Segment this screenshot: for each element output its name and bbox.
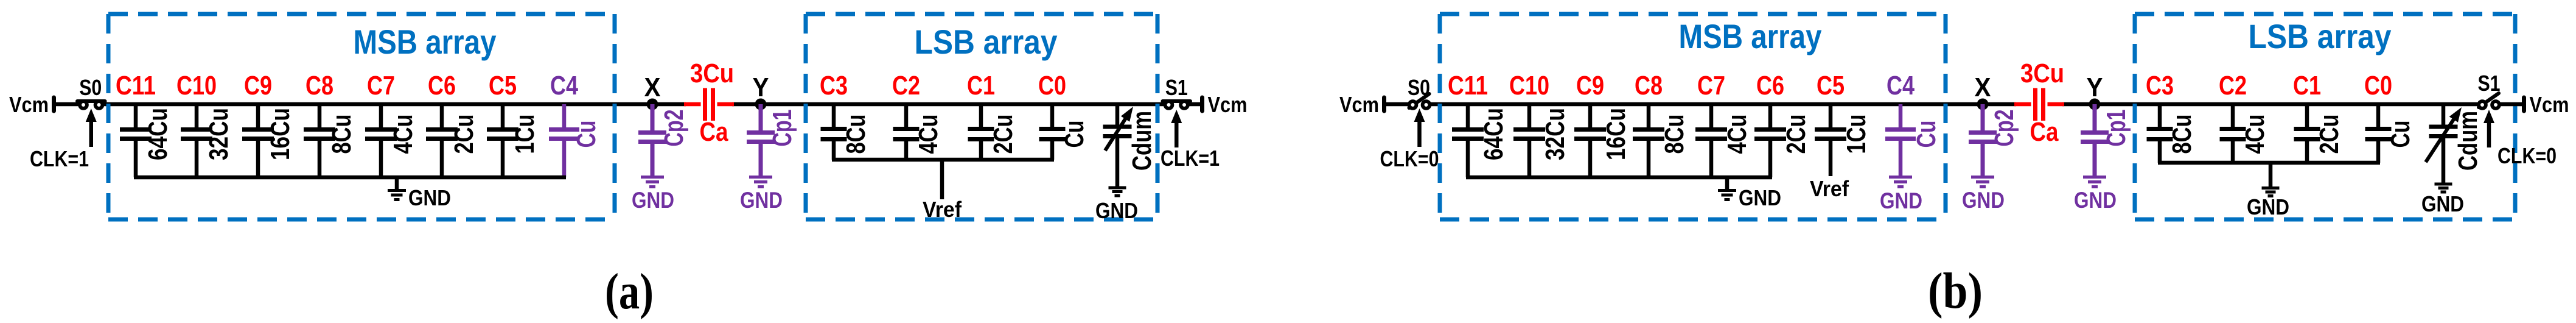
svg-text:Vcm: Vcm bbox=[9, 92, 49, 117]
svg-text:X: X bbox=[644, 73, 661, 102]
svg-text:2Cu: 2Cu bbox=[988, 115, 1018, 154]
capacitor Cdum (b) bbox=[2426, 104, 2483, 183]
MSB array box (a) bbox=[108, 14, 615, 219]
node Vcm right (b) bbox=[2530, 92, 2569, 117]
capacitor C7 (a) bbox=[365, 71, 418, 177]
svg-text:C3: C3 bbox=[820, 71, 848, 101]
svg-text:GND: GND bbox=[408, 185, 451, 210]
svg-text:GND: GND bbox=[2247, 194, 2289, 219]
svg-text:Y: Y bbox=[753, 73, 769, 102]
terminal Vcm right (b) bbox=[2522, 98, 2526, 111]
capacitor C4 (b) bbox=[1885, 71, 1941, 176]
label S0 (b) bbox=[1408, 75, 1430, 100]
wire LSB bottom rail (a) bbox=[832, 158, 1054, 162]
capacitor C1 (b) bbox=[2293, 71, 2344, 163]
svg-text:3Cu: 3Cu bbox=[690, 59, 734, 88]
ground Cp2 (a) bbox=[632, 177, 674, 213]
svg-text:Vcm: Vcm bbox=[2530, 92, 2569, 117]
LSB array box (a) bbox=[806, 14, 1157, 219]
svg-text:GND: GND bbox=[1739, 185, 1781, 210]
svg-text:64Cu: 64Cu bbox=[1479, 108, 1509, 160]
terminal Vcm right (a) bbox=[1200, 98, 1204, 111]
ground Cp1 (a) bbox=[740, 177, 783, 213]
label Vref C5 (b) bbox=[1810, 176, 1849, 201]
capacitor C5 (a) bbox=[487, 71, 540, 177]
svg-text:C2: C2 bbox=[2219, 71, 2247, 101]
capacitor C4 (a) bbox=[549, 71, 601, 177]
wire LSB bottom rail (b) bbox=[2158, 161, 2380, 165]
svg-text:GND: GND bbox=[632, 188, 674, 213]
svg-text:Cu: Cu bbox=[2386, 121, 2415, 148]
capacitor Cp2 (b) bbox=[1969, 104, 2019, 176]
svg-text:Y: Y bbox=[2087, 73, 2103, 102]
svg-text:1Cu: 1Cu bbox=[510, 115, 540, 154]
capacitor Cp2 (a) bbox=[638, 104, 689, 176]
svg-text:64Cu: 64Cu bbox=[143, 108, 173, 160]
ground Cp2 (b) bbox=[1962, 177, 2005, 213]
wire node Y to S1 (b) bbox=[2062, 102, 2477, 107]
svg-text:Cdum: Cdum bbox=[1127, 111, 1157, 171]
svg-text:GND: GND bbox=[1095, 198, 1138, 223]
svg-text:LSB array: LSB array bbox=[2249, 17, 2392, 55]
capacitor C9 (a) bbox=[242, 71, 295, 177]
svg-text:C10: C10 bbox=[176, 71, 217, 101]
svg-text:32Cu: 32Cu bbox=[1540, 108, 1570, 160]
capacitor C6 (b) bbox=[1754, 71, 1811, 177]
capacitor C10 (a) bbox=[176, 71, 234, 177]
svg-text:2Cu: 2Cu bbox=[2314, 115, 2344, 154]
svg-text:MSB array: MSB array bbox=[1679, 17, 1822, 55]
label MSB array (b) bbox=[1679, 17, 1822, 55]
svg-text:S0: S0 bbox=[1408, 75, 1430, 100]
svg-text:C3: C3 bbox=[2146, 71, 2174, 101]
ground LSB array (b) bbox=[2247, 163, 2289, 219]
svg-text:2Cu: 2Cu bbox=[1781, 115, 1811, 154]
svg-text:Ca: Ca bbox=[700, 117, 728, 147]
svg-text:GND: GND bbox=[2074, 188, 2117, 213]
capacitor C1 (a) bbox=[967, 71, 1018, 160]
switch S0 (b) bbox=[1409, 94, 1430, 108]
capacitor C10 (b) bbox=[1509, 71, 1570, 177]
label CLK=1 S0 (a) bbox=[30, 146, 89, 171]
svg-text:Vref: Vref bbox=[923, 197, 962, 222]
svg-text:16Cu: 16Cu bbox=[265, 108, 295, 160]
svg-text:C6: C6 bbox=[1756, 71, 1784, 101]
svg-text:S0: S0 bbox=[79, 75, 102, 100]
svg-text:8Cu: 8Cu bbox=[327, 115, 357, 154]
wire MSB bottom rail (b) bbox=[1466, 176, 1772, 180]
svg-text:(b): (b) bbox=[1928, 263, 1983, 319]
clock arrow S1 (a) bbox=[1171, 110, 1182, 147]
svg-text:LSB array: LSB array bbox=[915, 23, 1058, 61]
svg-text:Cu: Cu bbox=[1911, 121, 1941, 148]
node X (a) bbox=[644, 73, 661, 110]
node Vref LSB (a) bbox=[923, 160, 962, 222]
LSB array box (b) bbox=[2135, 14, 2515, 219]
svg-text:8Cu: 8Cu bbox=[841, 115, 871, 154]
label LSB array (b) bbox=[2249, 17, 2392, 55]
svg-text:C7: C7 bbox=[367, 71, 395, 101]
svg-text:GND: GND bbox=[1880, 188, 1922, 213]
node X (b) bbox=[1975, 73, 1991, 110]
svg-text:C0: C0 bbox=[1038, 71, 1066, 101]
capacitor C2 (b) bbox=[2219, 71, 2270, 163]
capacitor C8 (b) bbox=[1633, 71, 1689, 177]
capacitor Cp1 (b) bbox=[2081, 104, 2131, 176]
svg-text:C4: C4 bbox=[550, 71, 578, 101]
capacitor C3 (a) bbox=[820, 71, 871, 160]
ground Cdum (b) bbox=[2421, 184, 2464, 216]
clock arrow S1 (b) bbox=[2484, 110, 2494, 147]
label S1 (b) bbox=[2478, 71, 2501, 96]
svg-text:C10: C10 bbox=[1509, 71, 1549, 101]
svg-text:S1: S1 bbox=[2478, 71, 2501, 96]
svg-text:8Cu: 8Cu bbox=[2167, 115, 2197, 154]
wire S0 to node X (b) bbox=[1431, 102, 2017, 107]
wire Vcm to S0 (b) bbox=[1384, 102, 1409, 107]
capacitor Ca (b) bbox=[2014, 59, 2064, 147]
label CLK=1 S1 (a) bbox=[1161, 146, 1220, 171]
svg-text:1Cu: 1Cu bbox=[1841, 115, 1871, 154]
svg-text:X: X bbox=[1975, 73, 1991, 102]
ground MSB array (a) bbox=[388, 177, 451, 210]
MSB array box (b) bbox=[1440, 14, 1946, 219]
svg-text:4Cu: 4Cu bbox=[1722, 115, 1752, 154]
clock arrow S0 (a) bbox=[86, 108, 97, 147]
label CLK=0 S0 (b) bbox=[1380, 146, 1439, 171]
wire S0 to node X (a) bbox=[103, 102, 686, 107]
svg-text:CLK=0: CLK=0 bbox=[1380, 146, 1439, 171]
switch S1 (a) bbox=[1163, 101, 1191, 108]
ground C4 (b) bbox=[1880, 177, 1922, 214]
svg-text:C1: C1 bbox=[2293, 71, 2321, 101]
wire MSB bottom rail (a) bbox=[134, 176, 566, 180]
capacitor C11 (a) bbox=[116, 71, 173, 177]
capacitor C6 (a) bbox=[426, 71, 479, 177]
node Vcm right (a) bbox=[1208, 92, 1248, 117]
svg-text:C9: C9 bbox=[244, 71, 272, 101]
svg-text:16Cu: 16Cu bbox=[1601, 108, 1631, 160]
svg-text:C5: C5 bbox=[1817, 71, 1845, 101]
svg-text:C8: C8 bbox=[305, 71, 333, 101]
svg-text:4Cu: 4Cu bbox=[2240, 115, 2270, 154]
capacitor C11 (b) bbox=[1448, 71, 1509, 177]
label S1 (a) bbox=[1165, 75, 1188, 100]
capacitor C0 (b) bbox=[2364, 71, 2415, 163]
svg-text:C7: C7 bbox=[1697, 71, 1725, 101]
svg-text:CLK=1: CLK=1 bbox=[1161, 146, 1220, 171]
terminal Vcm left (b) bbox=[1382, 98, 1386, 111]
svg-text:C11: C11 bbox=[116, 71, 156, 101]
svg-text:Cp1: Cp1 bbox=[2101, 110, 2131, 147]
switch S1 (b) bbox=[2479, 93, 2499, 108]
svg-text:Cp1: Cp1 bbox=[767, 110, 797, 147]
label MSB array (a) bbox=[354, 23, 497, 61]
label S0 (a) bbox=[79, 75, 102, 100]
svg-text:Cp2: Cp2 bbox=[659, 110, 689, 147]
capacitor C7 (b) bbox=[1695, 71, 1752, 177]
ground Cp1 (b) bbox=[2074, 177, 2117, 213]
capacitor C3 (b) bbox=[2146, 71, 2197, 163]
capacitor C5 (b) bbox=[1815, 71, 1871, 176]
svg-text:Cdum: Cdum bbox=[2453, 111, 2483, 171]
svg-text:CLK=0: CLK=0 bbox=[2497, 143, 2557, 168]
switch S0 (a) bbox=[77, 101, 105, 108]
svg-text:GND: GND bbox=[1962, 188, 2005, 213]
svg-text:C8: C8 bbox=[1635, 71, 1663, 101]
caption (a) bbox=[605, 263, 654, 320]
svg-text:Cu: Cu bbox=[571, 121, 601, 148]
caption (b) bbox=[1928, 263, 1983, 319]
svg-text:Cu: Cu bbox=[1059, 121, 1089, 148]
svg-text:4Cu: 4Cu bbox=[913, 115, 943, 154]
wire S1 to Vcm right (b) bbox=[2500, 102, 2524, 107]
ground MSB array (b) bbox=[1718, 177, 1781, 210]
wire Vcm to S0 (a) bbox=[54, 102, 80, 107]
svg-text:C11: C11 bbox=[1448, 71, 1488, 101]
svg-text:32Cu: 32Cu bbox=[204, 108, 234, 160]
svg-text:Vcm: Vcm bbox=[1208, 92, 1248, 117]
svg-text:C1: C1 bbox=[967, 71, 995, 101]
capacitor C8 (a) bbox=[304, 71, 357, 177]
terminal Vcm left (a) bbox=[52, 98, 56, 111]
node Y (b) bbox=[2087, 73, 2103, 110]
svg-text:2Cu: 2Cu bbox=[449, 115, 479, 154]
svg-text:CLK=1: CLK=1 bbox=[30, 146, 89, 171]
capacitor Ca (a) bbox=[684, 59, 734, 147]
svg-text:4Cu: 4Cu bbox=[388, 115, 418, 154]
label CLK=0 S1 (b) bbox=[2497, 143, 2557, 168]
wire S1 to Vcm right (a) bbox=[1189, 102, 1202, 107]
ground Cdum (a) bbox=[1095, 188, 1138, 223]
svg-text:Cp2: Cp2 bbox=[1989, 110, 2019, 147]
svg-text:S1: S1 bbox=[1165, 75, 1188, 100]
clock arrow S0 (b) bbox=[1414, 108, 1425, 147]
svg-text:MSB array: MSB array bbox=[354, 23, 497, 61]
svg-text:(a): (a) bbox=[605, 263, 654, 320]
wire node Y to S1 (a) bbox=[732, 102, 1164, 107]
svg-text:Ca: Ca bbox=[2030, 117, 2059, 147]
svg-text:C6: C6 bbox=[428, 71, 456, 101]
svg-text:C5: C5 bbox=[489, 71, 517, 101]
svg-text:C2: C2 bbox=[892, 71, 920, 101]
capacitor C0 (a) bbox=[1038, 71, 1089, 160]
svg-text:GND: GND bbox=[740, 188, 783, 213]
node Vcm left (a) bbox=[9, 92, 49, 117]
svg-text:Vcm: Vcm bbox=[1339, 92, 1379, 117]
svg-text:3Cu: 3Cu bbox=[2020, 59, 2064, 88]
label LSB array (a) bbox=[915, 23, 1058, 61]
svg-text:GND: GND bbox=[2421, 191, 2464, 216]
capacitor Cp1 (a) bbox=[747, 104, 797, 176]
svg-text:C0: C0 bbox=[2364, 71, 2392, 101]
capacitor Cdum (a) bbox=[1103, 104, 1157, 186]
capacitor C9 (b) bbox=[1574, 71, 1631, 177]
node Y (a) bbox=[753, 73, 769, 110]
svg-text:Vref: Vref bbox=[1810, 176, 1849, 201]
capacitor C2 (a) bbox=[892, 71, 943, 160]
svg-text:C9: C9 bbox=[1576, 71, 1604, 101]
svg-text:C4: C4 bbox=[1887, 71, 1915, 101]
node Vcm left (b) bbox=[1339, 92, 1379, 117]
svg-text:8Cu: 8Cu bbox=[1660, 115, 1689, 154]
